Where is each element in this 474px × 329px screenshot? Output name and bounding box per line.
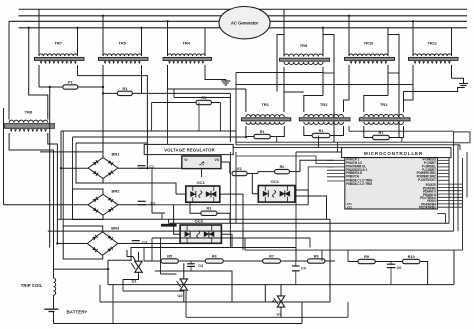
wire TR10 primary taps	[348, 16, 350, 56]
svg-text:MICROCONTROLLER: MICROCONTROLLER	[364, 151, 423, 156]
capacitor C4	[187, 264, 204, 268]
svg-text:TRIP COIL: TRIP COIL	[21, 283, 43, 288]
wire bundle v 72.5 feed	[72, 137, 74, 189]
svg-text:VI: VI	[184, 158, 187, 162]
wire OC3 right	[221, 234, 232, 247]
wire bundle h131	[61, 130, 236, 132]
svg-text:U2: U2	[177, 293, 183, 298]
resistor R1e	[373, 131, 390, 140]
svg-text:BR1: BR1	[111, 152, 120, 157]
wire R1a row	[103, 92, 230, 94]
wire E1 out	[247, 174, 258, 194]
wire center drop to MCU bus	[229, 93, 231, 142]
transformer TR3	[359, 102, 410, 124]
svg-text:P-C6/TX/CK7: P-C6/TX/CK7	[418, 178, 436, 182]
wire TR9 sec to TR1	[283, 67, 285, 112]
MCU right pin stub wires	[437, 159, 449, 161]
MCU left pin stub wires	[327, 159, 345, 161]
wire R2 wires	[258, 172, 275, 174]
optocoupler OC3	[180, 219, 221, 244]
wire U1 approach	[127, 250, 136, 261]
wire TR11 outer left	[388, 35, 399, 138]
transformer TR5	[99, 41, 149, 65]
triac U1	[131, 260, 142, 284]
resistor R1a	[117, 87, 132, 96]
resistor R3 wires	[190, 202, 201, 213]
wire bundle h137	[73, 136, 246, 138]
wire rail y204.8	[152, 204, 308, 206]
wire R1b row	[152, 102, 221, 104]
wire MCU bottom stub	[437, 213, 445, 215]
MCU right pin labels	[417, 158, 437, 210]
svg-text:P0B/DILC LO TRIG: P0B/DILC LO TRIG	[346, 182, 373, 186]
svg-text:E1: E1	[237, 167, 242, 171]
wire U2 gate feed	[161, 273, 177, 275]
resistor R2	[275, 165, 290, 174]
wire long vertical x296	[295, 152, 297, 248]
trip coil L2	[21, 269, 56, 309]
wire BR3 input loop	[63, 226, 102, 259]
wire TR11 to ground2	[452, 78, 464, 83]
svg-text:OC2: OC2	[270, 179, 279, 184]
wire TR4 primary taps	[167, 21, 169, 56]
wire TR5 secondary right	[141, 65, 143, 93]
regulator U4 7805	[182, 156, 221, 169]
resistor R10	[403, 255, 421, 264]
capacitor C6	[387, 264, 402, 270]
wire BR3 loop feed	[62, 131, 64, 226]
wire TR11 primary taps	[412, 21, 414, 56]
wire bundle h151.9	[40, 151, 76, 153]
wire rail y238	[152, 237, 310, 239]
transformer TR8	[5, 110, 55, 133]
wire right center verticals	[235, 73, 237, 132]
wire TR3 secondary loop	[364, 126, 404, 138]
transformer TR1	[241, 102, 290, 124]
transformer TR10	[345, 41, 395, 65]
svg-text:R10: R10	[408, 255, 415, 259]
wire TR1 left primary	[245, 89, 247, 112]
wire bus N left drop to TR8	[29, 28, 48, 120]
resistor R7	[263, 254, 281, 263]
wire bundle h143	[76, 142, 147, 144]
optocoupler OC2	[258, 179, 295, 202]
wire BR1 out	[118, 167, 182, 169]
svg-text:⎇: ⎇	[199, 161, 205, 167]
wire R1e drop	[401, 138, 403, 143]
triac U3	[274, 295, 285, 317]
capacitor C3	[132, 240, 147, 244]
wire TR9 outer left	[277, 35, 284, 92]
wire left edge drop	[3, 108, 5, 205]
wire TR8 sec right	[48, 133, 87, 244]
wire BR1 left out	[61, 167, 88, 169]
capacitor C1	[138, 165, 155, 169]
resistor P1	[63, 80, 78, 89]
wire R2 feed	[247, 173, 258, 175]
wire resistor rail y261	[144, 260, 335, 262]
svg-text:TR11: TR11	[427, 41, 437, 46]
svg-text:BR2: BR2	[111, 188, 120, 193]
wire R1b extra row	[174, 97, 230, 99]
svg-text:R7: R7	[269, 254, 274, 258]
svg-text:XT2: XT2	[347, 205, 353, 209]
resistor R5	[161, 254, 178, 263]
wire OC1 right	[220, 194, 243, 250]
wire left edge to BR2	[4, 204, 88, 206]
wire TR7 secondary left	[38, 65, 40, 87]
thyristor U3 drop	[280, 285, 282, 295]
wire TR1 secondary loop	[246, 126, 284, 137]
svg-text:TR2: TR2	[320, 102, 328, 107]
wire TR7 secondary right	[77, 65, 79, 76]
svg-text:VOLTAGE REGULATOR: VOLTAGE REGULATOR	[164, 147, 215, 152]
wire BR2 out	[118, 205, 165, 213]
wire TR9 outer right	[323, 35, 334, 143]
MCU right wrap loop A	[454, 132, 470, 143]
wire TR8 sec left to trip coil	[9, 133, 53, 269]
microcontroller U5 title	[342, 148, 451, 158]
svg-text:R1: R1	[260, 130, 265, 134]
transformer TR7	[35, 41, 85, 65]
ground GND2	[459, 84, 468, 88]
svg-text:C3: C3	[142, 240, 147, 244]
optocoupler OC1	[186, 180, 220, 202]
wire drops from R1b row	[151, 103, 153, 132]
wire TR7 primary taps	[38, 9, 40, 56]
wire U1 loop	[107, 260, 109, 284]
wire bundle v 49.7	[49, 87, 51, 248]
wire bottom rails	[54, 323, 303, 325]
resistor R9	[358, 255, 375, 264]
thyristor U1 drop	[138, 252, 140, 260]
svg-text:BR3: BR3	[111, 226, 120, 231]
svg-text:R8: R8	[314, 254, 319, 258]
transformer TR9	[280, 43, 330, 64]
resistor E1	[232, 167, 247, 176]
wire TR7s to VR	[78, 76, 148, 169]
svg-text:AC Generator: AC Generator	[231, 20, 259, 25]
wire TR11 sec	[404, 65, 414, 112]
thyristor U2 drop	[183, 263, 185, 277]
resistor R8	[308, 254, 325, 263]
svg-text:TR9: TR9	[300, 43, 308, 48]
bridge rectifier BR1	[88, 152, 120, 179]
transformer TR4	[163, 41, 212, 65]
MCU right wrap verticals	[448, 158, 450, 223]
wire inner rect	[155, 271, 232, 302]
MCU left pin labels	[346, 158, 373, 210]
svg-text:R3: R3	[206, 207, 211, 211]
wire bottom verticals	[112, 285, 114, 324]
wire OC3 left	[174, 205, 181, 234]
wire 7805 bottom pin	[201, 169, 203, 177]
battery B1	[44, 309, 87, 323]
bridge rectifier BR3	[87, 226, 120, 256]
wire U3 gate feed	[265, 285, 274, 302]
wire VR to MCU bundle	[236, 141, 454, 143]
wire rail y219.2	[57, 218, 330, 220]
transformer TR2	[299, 102, 350, 124]
wire MCU left feed 2	[308, 167, 334, 190]
wire bus L3 left drop to TR8	[8, 21, 10, 119]
svg-text:TR10: TR10	[364, 41, 375, 46]
wire BR2 input loop	[73, 189, 104, 220]
wire BR1 input loop	[76, 152, 176, 194]
wire TR2 secondary loop	[304, 126, 344, 136]
wire above row2	[284, 91, 304, 93]
wire TR4 secondary right to ground	[205, 65, 226, 81]
svg-text:R5: R5	[167, 254, 172, 258]
wire OC2 top feed	[300, 160, 334, 171]
power bus L3	[9, 20, 467, 22]
wire 7805 out to E1	[221, 162, 230, 174]
svg-text:C6: C6	[397, 266, 402, 270]
power bus N	[19, 27, 468, 29]
wire OC1 left	[176, 193, 186, 195]
wire bundle v 61	[60, 131, 62, 219]
wire row2 to wrap loop	[349, 130, 454, 132]
wire rail y231.1	[48, 230, 454, 232]
wire rail y223.3	[169, 222, 450, 224]
wire R3 left drop	[161, 213, 163, 219]
svg-text:OC1: OC1	[197, 180, 206, 185]
svg-text:BATTERY: BATTERY	[67, 309, 88, 314]
wire U3 bottom	[280, 308, 282, 317]
wire OC2 to MCU a	[295, 190, 308, 205]
wire TR3 primary right to ground2	[404, 88, 464, 113]
wire TR10 sec	[344, 65, 350, 112]
power bus L2	[19, 15, 468, 17]
wire BR3 left out	[56, 242, 58, 244]
resistor R1c	[254, 130, 271, 139]
capacitor C2	[138, 201, 156, 205]
wire TR4 secondary left	[168, 65, 246, 89]
wire P1 row	[39, 86, 103, 88]
wire TR9 primary taps	[283, 9, 285, 56]
bridge rectifier BR2	[88, 188, 120, 215]
wire center long vertical	[229, 152, 231, 248]
voltage regulator block title	[144, 144, 233, 154]
svg-text:R9: R9	[364, 255, 369, 259]
wire feed to MCU row2	[236, 156, 327, 164]
svg-text:R1: R1	[319, 129, 324, 133]
capacitor C5	[292, 266, 307, 271]
svg-text:R2: R2	[280, 165, 285, 169]
ground GND1	[221, 81, 230, 85]
svg-text:TR4: TR4	[182, 41, 190, 46]
resistor R6	[205, 254, 223, 263]
svg-text:P1: P1	[68, 80, 73, 84]
power bus L1	[19, 8, 468, 10]
transformer TR11	[409, 41, 459, 65]
resistor R3	[201, 207, 217, 216]
wire bottom nest top	[131, 248, 296, 262]
wire TR5 primary taps	[102, 16, 104, 56]
triac U2	[177, 278, 188, 298]
wire row2 drops to bundle	[276, 137, 278, 143]
svg-text:TR8: TR8	[25, 110, 33, 115]
svg-text:TR3: TR3	[380, 102, 388, 107]
svg-text:TR5: TR5	[118, 41, 126, 46]
microcontroller U5 IC body	[345, 158, 438, 209]
wire TR5 secondary left	[102, 65, 104, 158]
wire OC2 to MCU b	[295, 196, 327, 219]
resistor R4 (OC3 input bar)	[161, 224, 177, 227]
resistor R1d	[312, 129, 330, 138]
svg-text:R6: R6	[212, 254, 217, 258]
wire TR10 to TR3	[364, 96, 388, 113]
svg-text:TR7: TR7	[54, 41, 62, 46]
wire BR3 out	[118, 243, 180, 245]
wire trip loop top	[54, 268, 109, 270]
AC generator G1	[219, 7, 270, 39]
wire TR9 to TR2	[304, 96, 323, 113]
svg-text:TR1: TR1	[261, 102, 269, 107]
svg-text:PD7/ATR/Bv: PD7/ATR/Bv	[419, 205, 436, 209]
resistor R1b	[196, 96, 212, 105]
svg-text:VO: VO	[215, 158, 220, 162]
svg-text:R1: R1	[122, 87, 127, 91]
